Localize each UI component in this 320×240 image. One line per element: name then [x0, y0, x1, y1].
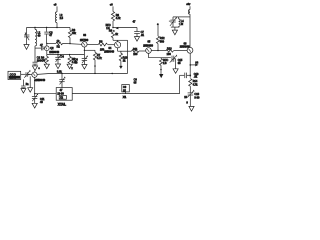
svg-text:100: 100: [167, 53, 172, 56]
svg-text:2N706: 2N706: [80, 38, 89, 42]
node bus-junctions: [34, 27, 57, 28]
resistor R11 (horizontal to Q5 base): [132, 48, 146, 56]
svg-text:2.5: 2.5: [60, 17, 64, 20]
svg-text:470: 470: [41, 60, 46, 63]
svg-text:560: 560: [160, 40, 165, 43]
wire Q1 collector node to Q2 base: [46, 43, 82, 45]
wire main bottom bus: [37, 73, 127, 75]
wire Q6 emitter down: [190, 53, 192, 77]
wire Q4 emitter line: [118, 48, 132, 51]
wire bottom link vertical: [179, 75, 181, 93]
power +9 (center): [110, 3, 113, 11]
svg-text:2N3646: 2N3646: [49, 50, 59, 54]
wire tank tap: [179, 16, 190, 18]
svg-text:2N3866: 2N3866: [180, 45, 190, 49]
power +9v (right): [186, 3, 191, 9]
svg-text:R13: R13: [167, 48, 172, 51]
inductor L4 (tank coil): [179, 17, 185, 27]
resistor R5 to ground: [68, 55, 77, 65]
capacitor C12 trimmer (CCO to Q1 base): [21, 70, 32, 78]
wire Q5 collector line: [151, 50, 166, 51]
resistor R8: [111, 12, 121, 28]
resistor R4 (emitter to ground): [41, 55, 48, 65]
wire R6 to Q4 base: [108, 44, 114, 46]
capacitor C2 to ground: [33, 48, 42, 66]
CCO driver box: [8, 71, 21, 79]
svg-text:2N3646: 2N3646: [104, 50, 114, 54]
ground (C16): [186, 101, 194, 111]
crystal X1 holder: [122, 85, 130, 99]
svg-text:9t: 9t: [181, 23, 183, 26]
capacitor C13 trimmer (tank): [169, 17, 179, 28]
capacitor C3 (bus to Q1 collector node): [44, 28, 53, 44]
capacitor C5 (Q1 base coupling): [35, 44, 45, 51]
ground (C4): [55, 64, 60, 69]
svg-text:3-30: 3-30: [194, 96, 200, 99]
transistor Q1 (oscillator): [32, 72, 46, 82]
ground (tank trimmer): [24, 45, 29, 50]
node small mark right of R5 ground: [71, 67, 73, 70]
transistor Q4: [104, 42, 120, 54]
capacitor C14 (output coupling in bottom link): [180, 73, 199, 79]
svg-text:X1: X1: [123, 95, 127, 99]
resistor R3 (bias, bus corner down): [68, 28, 76, 44]
wire crystal line left segment: [72, 93, 122, 95]
svg-text:.01: .01: [194, 76, 198, 79]
node output arrow: [190, 61, 198, 66]
capacitor C4 trimmer to ground: [55, 54, 64, 64]
svg-text:4.7k: 4.7k: [193, 83, 198, 86]
wire Q3 collector to R6: [87, 43, 98, 45]
ground (Q1 bias leg): [28, 76, 33, 92]
svg-text:4.7k: 4.7k: [97, 57, 102, 60]
wire Q1 emitter to crystal junction: [34, 77, 35, 94]
capacitor C1 (tank trimmer to ground): [24, 28, 29, 45]
capacitor C6 trimmer (Q3 emitter to ground): [75, 47, 88, 64]
inductor RFC3: [189, 10, 191, 48]
ground (C2): [32, 66, 37, 72]
wire top-left bus: [27, 27, 71, 29]
ground (C15): [173, 69, 178, 74]
inductor RFC1: [55, 12, 63, 28]
node arrow to bus: [119, 66, 122, 69]
wire feedback vertical: [127, 40, 129, 73]
transistor Q5: [143, 41, 153, 54]
resistor R9 (collector load): [109, 30, 119, 41]
ground (R5): [67, 64, 72, 69]
ground (RFC2, solid mark): [160, 74, 163, 77]
svg-text:2.5: 2.5: [163, 62, 167, 65]
wire crystal line right segment: [122, 93, 180, 95]
node junction RFC label: [106, 24, 119, 30]
capacitor C15 trimmer (emitter to ground): [170, 55, 183, 69]
svg-text:driver: driver: [9, 76, 16, 79]
inductor RFC2 (emitter leg): [160, 58, 169, 75]
resistor R12 (bias drop to coupling node): [156, 23, 165, 50]
transistor Q3: [80, 34, 89, 47]
power +9 (left choke): [54, 3, 57, 12]
wire collector tee to Q4 and feedback drop: [113, 40, 128, 41]
node small mark left of R4 ground: [38, 67, 40, 70]
wire junction to C7: [113, 27, 137, 29]
crystal box X2: [56, 88, 72, 107]
wire tank bottom: [171, 27, 179, 30]
svg-text:4.7k: 4.7k: [116, 17, 121, 20]
svg-text:100: 100: [133, 53, 138, 56]
ground (C6): [82, 65, 87, 70]
capacitor C7 bypass: [133, 21, 145, 38]
resistor R14 (emitter): [189, 79, 198, 93]
resistor R6 (horizontal series): [98, 41, 107, 52]
svg-text:.01: .01: [141, 34, 145, 37]
wire junction to crystal box: [35, 93, 57, 95]
inductor L1 tank coil: [35, 28, 41, 49]
wire Q5 emitter line: [149, 53, 171, 57]
svg-text:2N3646: 2N3646: [35, 78, 45, 82]
resistor R13 (horizontal series): [166, 48, 187, 56]
transistor Q2: [44, 43, 59, 54]
node C9 label: [134, 79, 138, 85]
capacitor C10 trimmer (bus to crystal box): [57, 70, 66, 87]
svg-text:2N3866: 2N3866: [143, 43, 153, 47]
wire Q2 emitter line: [47, 51, 85, 56]
ground (C11): [32, 103, 37, 108]
capacitor C16 trimmer: [184, 90, 200, 107]
resistor R7 (Q3 emitter to bus): [84, 50, 102, 73]
ground (C8): [21, 89, 26, 93]
ground (C7): [134, 37, 139, 42]
ground (R4): [44, 64, 49, 69]
capacitor C8 (base bypass): [21, 80, 29, 89]
resistor R10 (Q4 emitter leg): [119, 51, 128, 65]
svg-text:XTAL: XTAL: [58, 103, 66, 107]
resistor R2 (series, horizontal): [56, 40, 63, 48]
capacitor C11 trimmer (crystal trim): [32, 93, 45, 104]
ground (tank): [172, 30, 177, 35]
svg-text:R11: R11: [133, 48, 138, 51]
transistor Q6: [180, 42, 193, 53]
